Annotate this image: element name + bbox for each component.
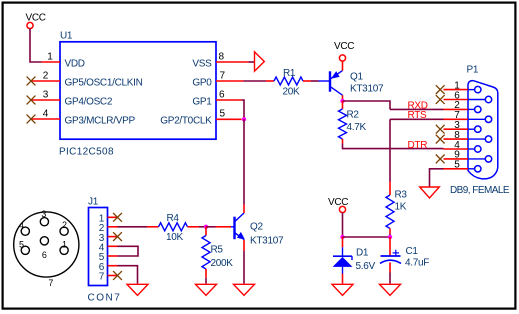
P1 pin 8 stub [444,138,469,140]
svg-text:KT3107: KT3107 [350,84,384,95]
power VCC (top left) [27,22,33,28]
wire Q2 emitter to ground [243,251,245,284]
no-connect P1 pin 8 [436,135,445,144]
wire RTS to DB9 pin 7 [390,118,444,120]
svg-text:R1: R1 [283,68,296,79]
J1 pin 7 stub [108,275,118,277]
transistor Q1 KT3107 [319,80,331,82]
wire R3 to C1 node [389,234,391,238]
svg-text:7: 7 [99,272,105,283]
svg-text:DTR: DTR [408,140,428,151]
wire J1 pin 2 to R4 [118,226,148,228]
P1 pin 4 stub [444,148,469,150]
svg-text:R5: R5 [211,245,224,256]
svg-text:4: 4 [43,109,49,120]
svg-text:GP4/OSC2: GP4/OSC2 [65,96,113,107]
J1 pin 3 stub [108,236,118,238]
pin 8 (VSS) stub [216,61,249,63]
ground at C1 [380,284,401,295]
svg-text:KT3107: KT3107 [250,235,284,246]
no-connect J1 pin 3 [113,232,122,241]
svg-text:R3: R3 [395,189,408,200]
wire base node to Q2 [206,226,216,228]
connector J1 CON7 body and pin names [89,208,108,286]
svg-text:GP2/T0CLK: GP2/T0CLK [160,115,212,126]
svg-text:RTS: RTS [408,110,428,121]
ground at D1 [332,284,353,295]
IC U1 PIC12C508 body and labels [60,42,216,139]
pin 3 (GP4) stub [31,99,60,101]
wire P1 pin 5 to ground [430,169,444,187]
wire GP1 down to GP2 row [242,100,245,119]
svg-text:6: 6 [219,89,225,100]
junction Q2 base node [204,225,208,229]
svg-text:7: 7 [48,278,53,288]
svg-text:GP5/OSC1/CLKIN: GP5/OSC1/CLKIN [65,77,143,88]
svg-text:2: 2 [62,220,67,230]
no-connect P1 pin 6 [436,95,445,104]
svg-text:VCC: VCC [26,13,46,24]
wire J1 pin 6 to ground [118,266,138,284]
wire J1 pins 4-5 loop [118,246,139,256]
P1 pin 1 stub [444,89,469,91]
wire R5 to ground [205,278,207,284]
DIN-7 connector face view [14,212,79,277]
ground at R5 [196,284,217,295]
svg-text:R4: R4 [167,213,180,224]
svg-text:3: 3 [43,90,49,101]
J1 pin 6 stub [108,265,118,267]
svg-text:5: 5 [19,240,24,250]
J1 pin 2 stub [108,226,118,228]
pin 6 (GP1) stub [216,99,242,101]
resistor R4 10K [147,226,159,228]
svg-text:5.6V: 5.6V [356,261,376,272]
power VCC at Q1 emitter [339,55,345,61]
svg-text:Q1: Q1 [350,71,363,82]
svg-text:4: 4 [19,221,24,231]
resistor R5 200K [205,227,207,236]
wire VCC down to node [342,213,344,237]
svg-text:Q2: Q2 [250,221,263,232]
P1 pin 7 stub [444,118,469,120]
P1 pin 2 stub [444,108,469,110]
svg-text:PIC12C508: PIC12C508 [59,146,114,157]
zener diode D1 5.6V [342,237,344,247]
svg-text:5: 5 [454,160,460,171]
pin 5 (GP2) stub [216,118,242,120]
P1 pin 3 stub [444,128,469,130]
no-connect P1 pin 1 [436,85,445,94]
wire node to C1 node [343,236,391,238]
junction Q1 collector node [340,99,344,103]
wire C1 to ground [389,273,391,284]
power arrow port at VSS [255,52,265,71]
junction D1 node [340,235,344,239]
pin 4 (GP3) stub [31,118,60,120]
wire node down to Q2 collector [243,119,245,204]
resistor R2 4.7K [342,101,344,109]
svg-text:GP3/MCLR/VPP: GP3/MCLR/VPP [65,115,136,126]
no-connect J1 pin 1 [113,213,122,222]
power VCC at D1 [339,206,345,212]
svg-text:P1: P1 [467,64,479,75]
capacitor C1 4.7uF [389,237,391,256]
resistor R3 1K [389,182,391,196]
svg-text:7: 7 [220,70,226,81]
resistor R1 20K [266,80,274,82]
svg-text:GP0: GP0 [192,77,212,88]
svg-text:VDD: VDD [65,58,85,69]
svg-text:10K: 10K [166,232,184,243]
svg-text:VCC: VCC [328,197,348,208]
svg-text:VCC: VCC [334,41,354,52]
wire R2 to DTR line [343,143,444,148]
svg-text:5: 5 [220,109,226,120]
svg-text:DB9, FEMALE: DB9, FEMALE [450,185,510,196]
pin 2 (GP5) stub [31,80,60,82]
svg-text:D1: D1 [356,247,369,258]
wire GP0 to R1 [244,80,267,82]
svg-text:VSS: VSS [192,58,212,69]
svg-text:4.7uF: 4.7uF [405,258,429,269]
svg-text:200K: 200K [211,258,234,269]
wire VCC to U1 pin 1 [30,29,42,62]
svg-text:2: 2 [43,71,49,82]
ground at J1 pin 6 [127,284,148,295]
wire RTS down to R3 [389,119,391,181]
no-connect P1 pin 3 [436,125,445,134]
svg-text:CON7: CON7 [88,292,122,303]
junction C1 node [388,235,392,239]
no-connect J1 pin 7 [113,271,122,280]
svg-text:C1: C1 [406,246,419,257]
no-connect pin 3 [27,96,36,105]
svg-text:6: 6 [42,250,47,260]
wire RXD to DB9 pin 2 [390,108,444,110]
svg-text:3: 3 [41,209,46,219]
wire R4 to base node [199,226,206,228]
J1 pin 5 stub [108,255,118,257]
svg-text:1: 1 [47,52,53,63]
svg-text:1K: 1K [395,201,407,212]
svg-text:GP1: GP1 [192,96,212,107]
no-connect pin 2 [27,77,36,86]
svg-text:J1: J1 [88,197,99,208]
J1 pin 1 stub [108,216,118,218]
svg-text:8: 8 [219,51,225,62]
no-connect pin 4 [27,115,36,124]
J1 pin 4 stub [108,245,118,247]
svg-text:4.7K: 4.7K [347,122,367,133]
junction GP2/GP1 node [242,117,246,121]
wire collector node to RXD step [343,101,391,109]
wire VSS pin 8 to arrow [249,61,255,63]
svg-text:1: 1 [62,240,67,250]
no-connect P1 pin 9 [436,155,445,164]
svg-text:20K: 20K [283,86,301,97]
ground at Q2 [234,284,255,295]
wire R1 to Q1 base [311,80,319,82]
P1 pin 5 stub [444,168,469,170]
pin 7 (GP0) stub [216,80,244,82]
transistor Q2 KT3107 [231,226,235,228]
svg-text:U1: U1 [60,31,73,42]
svg-text:R2: R2 [347,109,360,120]
ground at P1 pin 5 [420,187,440,198]
pin 1 (VDD) stub [42,61,61,63]
P1 pin 6 stub [444,99,469,101]
P1 pin 9 stub [444,158,469,160]
